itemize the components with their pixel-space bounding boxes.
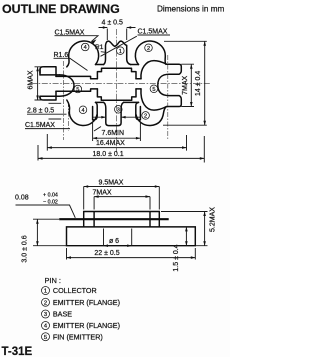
svg-text:18.0 ± 0.1: 18.0 ± 0.1 — [93, 151, 124, 158]
svg-text:OUTLINE DRAWING: OUTLINE DRAWING — [2, 2, 120, 16]
svg-text:7MAX: 7MAX — [182, 75, 189, 94]
svg-text:ø 6: ø 6 — [109, 238, 119, 245]
tab width arrow line at y=117.2 — [93, 116, 141, 118]
dim 4±0.5 arrow lines — [99, 27, 136, 29]
svg-text:5: 5 — [44, 335, 47, 341]
svg-text:2.8 ± 0.5: 2.8 ± 0.5 — [27, 108, 54, 115]
arrowheads side view — [36, 185, 206, 259]
svg-text:14 ± 0.4: 14 ± 0.4 — [195, 71, 202, 96]
svg-text:22 ± 0.5: 22 ± 0.5 — [94, 250, 119, 257]
7MAX dim right fin — [181, 64, 194, 106]
moulding raised section — [84, 212, 160, 227]
svg-text:6MAX: 6MAX — [28, 70, 35, 89]
body outline with notched corners — [97, 68, 136, 100]
neck stubs right — [136, 79, 141, 89]
neck lines left — [56, 76, 97, 91]
C1.5MAX left underline and leader to flange chamfer — [55, 36, 99, 42]
14±0.4 dim — [163, 41, 207, 125]
svg-text:FIN (EMITTER): FIN (EMITTER) — [53, 332, 103, 341]
svg-text:EMITTER (FLANGE): EMITTER (FLANGE) — [53, 298, 120, 307]
svg-text:2: 2 — [144, 114, 147, 120]
left fin outer edge segments (slot opens left) — [39, 70, 41, 98]
shoulder lines bottom — [96, 101, 139, 103]
base tab (pin 3) bottom — [104, 102, 124, 125]
C1.5MAX right underline and long leader through tab — [101, 35, 171, 56]
moulding inner steps — [94, 212, 150, 227]
svg-text:4 ± 0.5: 4 ± 0.5 — [102, 20, 123, 27]
svg-text:3: 3 — [117, 107, 120, 113]
9.5MAX dim — [84, 187, 160, 210]
centerline horizontal top view — [31, 82, 210, 84]
circled pin numbers in top view — [74, 43, 158, 119]
flange 2 top-right lobe arc — [135, 41, 166, 64]
16.4MAX dim — [47, 134, 186, 151]
R1 leader — [101, 51, 106, 54]
shoulder line right of tab — [130, 64, 138, 66]
collector tab (pin 1) sides and wavy top — [104, 41, 131, 64]
7.6MIN dim — [93, 123, 141, 141]
3.0±0.6 dim — [33, 219, 67, 246]
svg-text:− 0.02: − 0.02 — [43, 199, 58, 205]
svg-text:C1.5MAX: C1.5MAX — [55, 29, 85, 36]
svg-text:1.5 ± 0.4: 1.5 ± 0.4 — [173, 244, 180, 271]
svg-text:1: 1 — [44, 289, 47, 295]
dim 4±0.5 extension lines — [107, 29, 126, 41]
7MAX dim side — [94, 197, 150, 210]
dim 6MAX line — [37, 67, 39, 100]
22±0.5 dim — [67, 248, 196, 260]
svg-text:16.4MAX: 16.4MAX — [96, 140, 125, 147]
svg-text:7.6MIN: 7.6MIN — [102, 130, 125, 137]
svg-text:2: 2 — [44, 301, 47, 307]
svg-text:4: 4 — [81, 108, 84, 114]
svg-text:C1.5MAX: C1.5MAX — [25, 122, 55, 129]
svg-text:1: 1 — [119, 49, 122, 55]
main bar — [67, 227, 196, 246]
svg-text:5.2MAX: 5.2MAX — [210, 207, 217, 232]
0.08 leader — [16, 205, 76, 218]
svg-text:4: 4 — [84, 45, 87, 51]
svg-text:9.5MAX: 9.5MAX — [99, 180, 124, 187]
svg-text:Dimensions in mm: Dimensions in mm — [157, 5, 225, 14]
svg-text:+ 0.04: + 0.04 — [43, 193, 58, 199]
arrowheads top view — [36, 26, 206, 160]
svg-text:2: 2 — [147, 46, 150, 52]
shoulder line left of tab — [96, 64, 104, 66]
flange 4 top-left lobe arc — [67, 41, 99, 67]
svg-text:COLLECTOR: COLLECTOR — [53, 286, 97, 295]
svg-text:3: 3 — [44, 312, 47, 318]
lead line side view — [59, 218, 169, 220]
left fin slot edges — [40, 75, 60, 96]
18.0 dim — [38, 136, 204, 163]
svg-text:7MAX: 7MAX — [93, 190, 112, 197]
dim 6MAX extension ticks — [35, 67, 45, 100]
left fin outline — [40, 67, 56, 100]
svg-text:R1: R1 — [95, 44, 104, 51]
svg-text:BASE: BASE — [53, 310, 72, 319]
svg-text:3.0 ± 0.6: 3.0 ± 0.6 — [21, 235, 28, 262]
1.5±0.4 dim — [161, 227, 190, 246]
dia 6 dim — [104, 229, 132, 246]
2.8±0.5 underline — [27, 113, 67, 115]
C1.5MAX bottom underline and leader — [25, 127, 101, 132]
right fin outline with arms and slot — [141, 61, 181, 111]
flange 4 bottom-left lobe arc — [67, 100, 97, 126]
svg-text:5: 5 — [76, 87, 79, 93]
flange foot lines left — [49, 103, 62, 119]
5.2MAX dim — [161, 212, 208, 246]
left fin hole centerline — [64, 61, 69, 140]
R1.6 underline and leader — [54, 58, 88, 70]
svg-text:EMITTER (FLANGE): EMITTER (FLANGE) — [53, 321, 120, 330]
svg-text:PIN :: PIN : — [45, 276, 61, 285]
svg-text:T-31E: T-31E — [2, 346, 33, 357]
svg-text:C1.5MAX: C1.5MAX — [138, 29, 168, 36]
flange 2 bottom-right lobe arc — [136, 102, 166, 125]
svg-text:0.08: 0.08 — [15, 195, 29, 202]
right fin hole centerline — [167, 55, 169, 140]
svg-text:R1.6: R1.6 — [54, 52, 69, 59]
svg-text:5: 5 — [152, 87, 155, 93]
centerline vertical top view — [116, 29, 118, 153]
left fin slot closed-end arc — [60, 75, 75, 96]
